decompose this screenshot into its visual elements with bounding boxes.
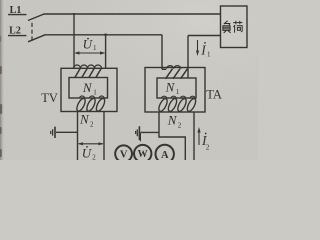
wire TA primary right rise (187, 36, 189, 79)
transformer TV outer box (61, 68, 117, 111)
label N1 TV (82, 80, 97, 97)
arrow U1 double-headed (74, 51, 106, 54)
wire L1 stub (8, 14, 27, 16)
voltmeter V (115, 145, 132, 162)
wire L2 right segment to load (188, 35, 221, 37)
TA primary coil (166, 66, 188, 79)
wire L2 left segment (45, 34, 163, 36)
arrow I2 (197, 127, 200, 145)
wire TV secondary left (77, 112, 79, 161)
TA secondary coil (157, 96, 197, 112)
wire TA secondary left with corner (159, 112, 185, 160)
wattmeter stub (139, 133, 141, 141)
label I2 current (201, 133, 210, 152)
ground TA wire (141, 131, 160, 133)
scan specks on left edge (0, 36, 2, 157)
wire L2 stub (8, 35, 27, 37)
arrow U2 double-headed (78, 142, 105, 145)
junction dot L2/TV (104, 33, 107, 36)
scan edge shading left (0, 0, 4, 160)
switch blade L2 (28, 35, 45, 42)
TV primary coil (74, 65, 102, 77)
wire TV primary left drop (73, 14, 75, 68)
TV core rect N1 (69, 78, 108, 99)
load box (221, 6, 248, 48)
transformer TA outer box (145, 68, 205, 113)
load label 负荷 (223, 21, 243, 33)
ammeter A (156, 145, 174, 163)
paper background (0, 0, 258, 160)
wire TV primary right drop (105, 35, 107, 69)
label N2 TV (79, 112, 94, 129)
arrow I1 (196, 40, 199, 56)
wire TA secondary right (193, 112, 195, 160)
label I1 current (200, 42, 211, 59)
label U2 voltage (82, 145, 97, 161)
junction dot L1/TV (73, 13, 75, 15)
wire L1 main (44, 13, 222, 15)
wattmeter W (134, 145, 151, 162)
ground TV wire (56, 131, 78, 133)
switch blade L1 (28, 14, 44, 21)
wire TV secondary right (103, 112, 105, 161)
ground TV symbol (51, 127, 55, 138)
label N2 TA (167, 112, 182, 129)
paper grain (0, 0, 258, 160)
switch linkage dashed (31, 23, 33, 42)
wire TA primary left drop (162, 35, 166, 70)
label N1 TA (165, 79, 180, 96)
label U1 voltage (83, 37, 97, 53)
TV secondary coil (75, 96, 106, 112)
ground TA symbol (136, 126, 140, 140)
TA core rect N1 (157, 78, 196, 98)
